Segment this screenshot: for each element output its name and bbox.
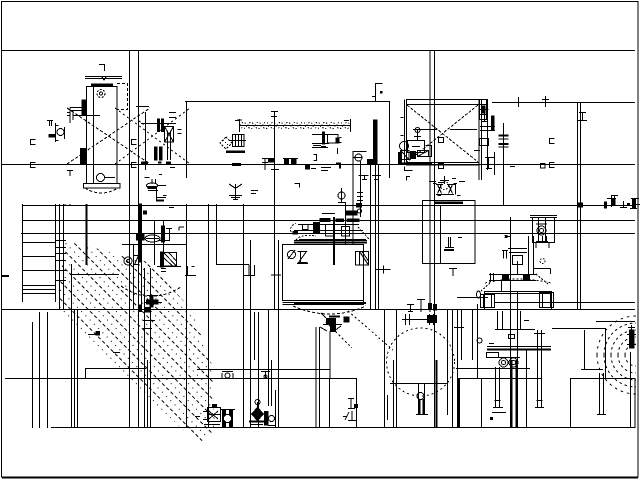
vessel V2 shell xyxy=(283,245,367,305)
floor line right y=302 xyxy=(494,302,635,304)
bracket clip a1 xyxy=(31,140,36,145)
mill drain pipe left pair xyxy=(491,367,507,420)
beam y=328 right xyxy=(552,328,605,330)
black blob on EL3 x=372 xyxy=(368,160,378,165)
feeder F1 black blob xyxy=(137,234,145,241)
tick on riser y=169 xyxy=(271,169,279,171)
bracket clip c2 xyxy=(550,163,555,168)
riser crossbar y=175 xyxy=(372,176,381,180)
support dashes x=325 xyxy=(321,168,331,171)
mill M1 flange bar xyxy=(481,273,548,291)
platform line y=233 xyxy=(21,233,635,235)
tick below platform x=171 xyxy=(169,207,174,209)
mill M1 base flange xyxy=(487,344,552,358)
black tick x=308 y=166 xyxy=(306,166,317,170)
bracket y=270 x=452 xyxy=(449,269,457,277)
floor line EL4 y=310 xyxy=(2,309,635,311)
flange pair black upper xyxy=(158,119,160,132)
frame right top bracket xyxy=(479,110,489,122)
pipes x=447-468 xyxy=(447,310,449,415)
feeder F1 drop lines xyxy=(133,244,135,310)
beam line y=369 segments xyxy=(86,368,146,370)
pipe feet x=268-272 xyxy=(268,310,270,406)
floor line EL2 left y=102 xyxy=(185,101,390,103)
black tick x=197 xyxy=(195,416,200,418)
bracket x=181 y=228 xyxy=(179,227,184,231)
pipe riser x=430 xyxy=(429,50,431,312)
drop rod x=584 xyxy=(584,330,586,370)
pipe manifold y=319 xyxy=(402,300,437,326)
mill M1 left lug xyxy=(477,291,495,308)
instrument stand symbol xyxy=(229,184,242,200)
feeder F1 thick black bar xyxy=(139,204,142,262)
vessel V1 top cap xyxy=(85,77,122,85)
blender chord line y=384 xyxy=(390,383,448,385)
lower columns x=32,39,47 xyxy=(32,322,34,428)
hatch inner tick 2 xyxy=(113,352,120,354)
box2 right tick y=269 xyxy=(376,266,391,274)
stair stringer post x=86 thick xyxy=(86,204,88,265)
vessel V1 lower nozzle circle xyxy=(97,174,105,182)
tick x=614 y=195 xyxy=(611,196,618,204)
valve circle stem x=341 xyxy=(338,188,345,203)
black valve cross on chute xyxy=(144,296,162,308)
right edge valve black xyxy=(627,325,636,348)
vessel V1 left inlet pipe xyxy=(67,108,83,124)
bracket clip a2 xyxy=(31,163,36,168)
shelf line y=297 xyxy=(457,297,488,299)
floor line EL5 y=378 xyxy=(5,378,357,380)
tick on riser y=275 xyxy=(271,274,281,276)
braced frame dotted X xyxy=(407,105,478,162)
stub mark x=582 xyxy=(578,112,587,121)
vessel V2 section mark right xyxy=(356,252,369,266)
pipe riser x=434 xyxy=(434,50,436,428)
black squares on EL3 x=285-296 xyxy=(283,159,298,164)
platform line y=205 xyxy=(22,205,635,207)
riser pipe lower x=370-378 xyxy=(371,164,437,310)
brackets under motor xyxy=(405,167,413,172)
pipe stub with sight glass at x=60 xyxy=(47,120,65,142)
box bottom mid xyxy=(460,379,482,428)
vessel V1 skirt dashed xyxy=(85,188,118,193)
right coil dashed arcs xyxy=(597,316,636,394)
tick pair right of stand xyxy=(251,191,258,194)
riser pipe thick black x=375 xyxy=(374,120,378,164)
black nubs on risers xyxy=(429,304,432,310)
pipe riser x=274 xyxy=(274,111,276,310)
right thick stub xyxy=(492,116,495,130)
column x=278 xyxy=(278,240,280,428)
thick pipe x=434 lower xyxy=(436,360,438,428)
feeder F1 rotary oval xyxy=(145,235,160,242)
column x=510 xyxy=(510,217,512,428)
crusher side tick xyxy=(505,236,508,238)
tick on EL2 x=545 xyxy=(542,96,549,107)
right short line y=321 xyxy=(596,321,635,323)
tick left end xyxy=(235,120,239,122)
motor M2 on EL3 xyxy=(398,128,432,164)
top bracket ticks xyxy=(169,113,176,118)
V2 discharge chute pipes xyxy=(315,327,317,428)
spool piece verticals xyxy=(167,131,169,160)
left dashed hood arc xyxy=(121,286,181,296)
box2 internal hopper symbol xyxy=(444,237,462,250)
frame mid beam y=129 xyxy=(413,129,437,131)
braced frame center gusset xyxy=(439,138,444,143)
screw conveyor flights dotted xyxy=(241,123,351,129)
flange pair black lower xyxy=(155,147,158,160)
column x=250 xyxy=(250,240,252,428)
tie beam y=116 xyxy=(73,115,100,117)
bracket clip c1 xyxy=(550,139,555,144)
vessel V1 right dashed profile xyxy=(117,84,128,110)
tick crossing column y=106 xyxy=(136,106,149,108)
bracket mark y=268 xyxy=(185,266,196,276)
floor line EL1 y=50 xyxy=(1,50,635,52)
bracket clip b1 xyxy=(132,140,137,145)
vessel V1 left support tick xyxy=(67,170,73,172)
valve assembly black x=257 xyxy=(249,400,276,426)
drum/barrel at frame left xyxy=(474,99,495,170)
equipment frame box 2 xyxy=(423,196,476,264)
vessel V2 section mark left 9Z xyxy=(288,250,309,264)
drop rod x=605 xyxy=(605,328,607,378)
column x=129 xyxy=(129,50,131,428)
lower columns x=71,74,77 xyxy=(71,264,73,428)
elbow circle on box edge xyxy=(477,338,482,343)
bracket clip b2 xyxy=(132,163,137,168)
tick under EL3 x=512 xyxy=(510,166,515,168)
mill leg x=526 xyxy=(526,350,528,428)
column x=243 xyxy=(243,204,245,428)
feeder F1 beam y=244 xyxy=(122,244,186,246)
floor line EL2 right y=102 xyxy=(492,102,635,104)
platform line y=220 xyxy=(22,220,635,222)
column x=138 xyxy=(138,50,140,428)
lower columns x=145-150 xyxy=(144,268,146,428)
note text dashes under frame xyxy=(438,179,465,185)
small black square x=145 y=212 xyxy=(144,211,147,214)
diamond chute fitting xyxy=(220,135,246,150)
rod x=477 xyxy=(477,304,479,378)
mill drain pipe right pair xyxy=(534,330,545,408)
valve body hatched xyxy=(165,127,174,143)
ladder side tick xyxy=(2,275,9,277)
side tick bracket xyxy=(178,130,182,134)
V2 drain valve cluster black xyxy=(320,313,342,332)
agitator drive cluster on V2 xyxy=(291,209,369,240)
drop rod x=390 xyxy=(389,102,391,178)
pump P1 xyxy=(145,175,167,201)
pipe pair x=384,396 xyxy=(384,310,386,428)
blender trunnion small circle xyxy=(416,383,428,415)
vessel V1 body xyxy=(87,87,118,184)
feeder F1 black blob on EL4 xyxy=(139,305,142,312)
ladder rungs xyxy=(22,242,55,244)
V2 side pipes x=345,353 xyxy=(345,202,347,244)
flange stack x=360 y=195 xyxy=(357,193,364,208)
black segment on EL3 x=236 xyxy=(232,163,241,166)
riser pipe upper bracket xyxy=(372,83,383,102)
platform short beam y=274 xyxy=(70,274,119,276)
box bottom right xyxy=(571,379,636,428)
agitator shaft xyxy=(333,217,335,265)
V2 skirt dashed arc xyxy=(293,306,366,314)
black weld mark xyxy=(49,135,55,138)
stair steps small xyxy=(55,241,66,281)
vessel V2 flange top xyxy=(294,241,367,243)
clip box x=542 xyxy=(541,164,546,169)
angle mark x=297 xyxy=(295,184,300,188)
pulley columns black xyxy=(220,410,235,428)
vessel V1 upper nozzle circle xyxy=(97,90,105,98)
corner box3 with arrow glyph xyxy=(353,152,369,218)
black nub right of drain xyxy=(344,317,349,322)
vessel V1 left nozzle black flange lower xyxy=(81,149,87,164)
column x=186 xyxy=(186,102,188,178)
black bar above agitator xyxy=(346,211,357,215)
column x=208 xyxy=(208,204,210,428)
pipes x=254-258 mid xyxy=(254,312,256,360)
fitting base bar xyxy=(226,150,245,153)
pipe drop x=503 with flanges xyxy=(499,123,509,205)
mill support legs thick xyxy=(510,291,512,428)
crusher C1 housing xyxy=(530,216,557,249)
blender dotted circle xyxy=(387,328,455,396)
vessel V1 base plate xyxy=(84,184,121,189)
right platform fittings xyxy=(579,196,640,209)
floor line EL3 y=164 xyxy=(2,164,635,166)
feeder F1 hatched box xyxy=(157,252,181,272)
feeder F1 black fitting xyxy=(158,226,172,242)
mill M1 pedestal xyxy=(495,311,535,339)
vessel V1 left nozzle black flange upper xyxy=(82,100,87,115)
drop pipe x=145 xyxy=(145,112,147,170)
ground line y=428 xyxy=(51,427,635,429)
ticks right of hatch xyxy=(143,320,155,322)
V2 right vertical x=363 to base xyxy=(363,244,365,305)
support bracket rollers xyxy=(312,132,342,169)
hanger clip x=265 xyxy=(261,372,270,379)
thick segments on EL3 xyxy=(141,161,171,164)
beam stub x=85 xyxy=(85,368,87,378)
frame bottom-left boxes xyxy=(401,151,429,160)
dots on platform xyxy=(64,204,73,206)
vessel V1 lifting bracket xyxy=(99,65,105,72)
drain rod x=630 xyxy=(630,352,632,428)
hanger pulley on beam y=370 xyxy=(222,372,233,379)
ladder rails xyxy=(22,204,24,302)
pipe pair x=599-603 xyxy=(597,373,606,415)
frame left pipe fittings xyxy=(401,118,421,147)
hopper box marks xyxy=(343,399,358,421)
X-brace dotted diagonals xyxy=(67,108,190,164)
hanger F x=274 xyxy=(271,112,278,117)
rod x=494 xyxy=(494,152,496,175)
braced frame lower gusset xyxy=(439,164,444,169)
tick on EL2 x=518 xyxy=(518,97,520,107)
hopper box bottom xyxy=(330,379,357,428)
small tick under EL3 xyxy=(170,167,175,169)
braced frame box xyxy=(405,100,482,181)
hatch inner tick 1 xyxy=(88,332,100,336)
black square on EL4 xyxy=(145,308,150,313)
pipe header y=123 xyxy=(141,123,176,125)
screw conveyor shaft xyxy=(237,119,351,132)
feeder F1 pump circle 7 xyxy=(124,256,139,266)
valve manifold under frame xyxy=(433,176,457,195)
platform beam y=264 xyxy=(216,265,255,276)
mill M1 gauges xyxy=(498,358,520,368)
column x=216 xyxy=(216,204,218,265)
equipment box with X at x=207 xyxy=(203,405,221,425)
right corner bracket xyxy=(485,158,494,170)
bracket cluster on EL3 x=265 xyxy=(262,158,274,170)
tick above conveyor right xyxy=(344,120,349,122)
mill M1 right lug xyxy=(540,293,554,308)
mill M1 motor top xyxy=(502,236,551,274)
column x=577 pair xyxy=(577,102,579,310)
mill M1 body shell xyxy=(485,279,552,310)
dashed funnel lines xyxy=(348,311,393,350)
